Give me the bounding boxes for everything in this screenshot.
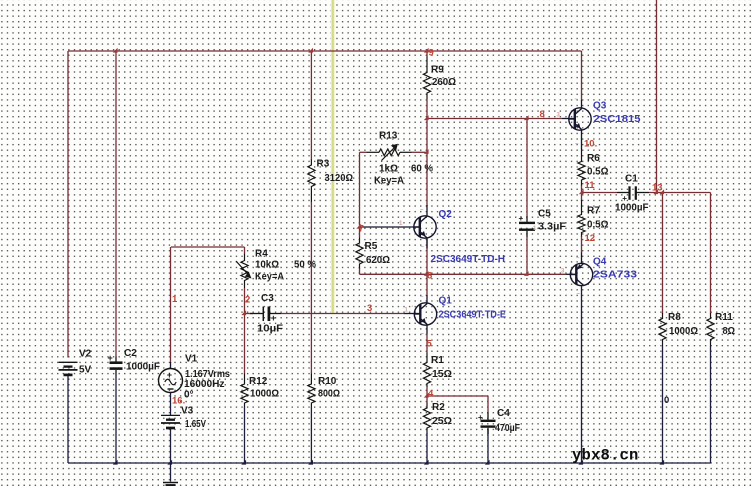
svg-text:1kΩ: 1kΩ [379,164,398,175]
svg-text:1000Ω: 1000Ω [669,326,698,337]
svg-text:0.5Ω: 0.5Ω [587,220,609,231]
svg-text:+: + [271,313,276,323]
svg-text:2: 2 [245,295,250,306]
svg-text:25Ω: 25Ω [432,416,452,427]
svg-text:Q3: Q3 [593,101,607,112]
svg-text:C2: C2 [124,348,137,359]
svg-text:Q4: Q4 [593,257,607,268]
svg-text:16.: 16. [172,396,185,407]
svg-text:~: ~ [576,256,580,262]
svg-text:3.3µF: 3.3µF [538,222,566,233]
svg-text:60 %: 60 % [411,164,433,175]
svg-text:1000µF: 1000µF [126,362,160,373]
svg-text:5V: 5V [79,365,92,376]
svg-text:1.65V: 1.65V [185,419,206,430]
svg-text:V2: V2 [79,349,92,360]
svg-text:V1: V1 [185,354,198,365]
svg-text:R11: R11 [715,312,733,323]
svg-text:6: 6 [427,271,432,282]
svg-text:Key=A: Key=A [255,272,284,283]
svg-text:1000Ω: 1000Ω [250,389,279,400]
svg-text:2SC3649T-TD-H: 2SC3649T-TD-H [431,254,506,265]
svg-text:8: 8 [540,109,545,120]
svg-text:~: ~ [420,295,424,301]
svg-text:ybx8.cn: ybx8.cn [572,447,639,465]
svg-text:R5: R5 [365,241,378,252]
svg-text:50 %: 50 % [294,260,316,271]
svg-text:620Ω: 620Ω [366,255,390,266]
svg-text:800Ω: 800Ω [318,389,340,400]
svg-text:R9: R9 [431,65,444,76]
svg-text:0.5Ω: 0.5Ω [587,167,609,178]
svg-text:R1: R1 [431,355,444,366]
svg-text:Q1: Q1 [439,296,453,307]
svg-text:C1: C1 [625,174,638,185]
svg-text:5: 5 [427,339,433,350]
svg-text:V3: V3 [181,406,194,417]
svg-text:15Ω: 15Ω [432,369,452,380]
svg-text:~: ~ [575,142,579,148]
svg-text:+: + [167,370,172,380]
svg-text:9: 9 [429,48,434,59]
svg-text:8Ω: 8Ω [723,326,736,337]
svg-text:7: 7 [359,224,364,235]
svg-text:R7: R7 [587,206,600,217]
svg-text:12: 12 [585,233,596,244]
svg-text:+: + [519,214,524,223]
svg-text:4: 4 [428,389,434,400]
svg-text:3120Ω: 3120Ω [325,173,354,184]
svg-text:R12: R12 [249,376,268,387]
svg-text:Q2: Q2 [439,209,453,220]
svg-text:10kΩ: 10kΩ [255,260,279,271]
svg-text:~: ~ [421,245,425,251]
svg-text:3: 3 [367,303,372,314]
svg-text:+: + [108,353,113,363]
svg-text:2SC1815: 2SC1815 [594,114,641,125]
svg-text:16000Hz: 16000Hz [184,379,225,390]
svg-text:260Ω: 260Ω [432,77,456,88]
svg-text:R8: R8 [668,312,681,323]
svg-text:R2: R2 [432,402,445,413]
svg-text:~: ~ [577,292,581,298]
svg-text:2SA733: 2SA733 [593,270,638,281]
svg-text:13: 13 [652,183,663,194]
svg-text:2SC3649T-TD-E: 2SC3649T-TD-E [439,310,507,321]
svg-text:C3: C3 [261,293,274,304]
svg-text:10µF: 10µF [257,324,283,335]
svg-text:C5: C5 [538,209,551,220]
svg-text:11: 11 [585,180,596,191]
svg-text:+: + [478,413,483,422]
svg-text:C4: C4 [497,408,510,419]
svg-text:~: ~ [575,98,579,104]
svg-text:R4: R4 [255,249,268,260]
svg-text:10.: 10. [584,139,597,150]
svg-text:R13: R13 [379,131,398,142]
svg-text:Key=A: Key=A [374,176,404,187]
svg-text:1000µF: 1000µF [615,203,649,214]
svg-text:R3: R3 [317,159,330,170]
svg-text:˚: ˚ [412,306,414,313]
svg-text:470µF: 470µF [495,423,520,434]
svg-text:R10: R10 [318,376,337,387]
svg-text:R6: R6 [587,153,600,164]
svg-text:~: ~ [420,208,424,214]
svg-text:0: 0 [664,395,669,406]
svg-text:0°: 0° [184,390,194,401]
svg-text:1: 1 [172,294,178,305]
svg-text:~: ~ [421,332,425,338]
